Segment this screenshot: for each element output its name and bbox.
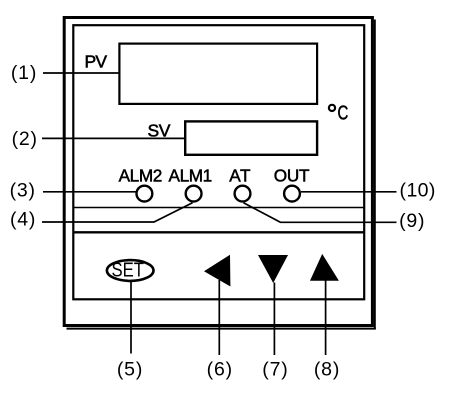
svg-text:ALM2: ALM2 [119,166,162,186]
up arrow button [310,254,339,281]
svg-text:(2): (2) [12,128,38,150]
leader line 3 [43,191,136,193]
unit °C [329,103,348,125]
svg-text:C: C [338,103,349,125]
svg-text:(9): (9) [399,210,425,232]
divider line lower [73,231,364,233]
inner panel frame [73,25,364,299]
SET button [107,260,154,282]
indicator lamp ALM1 [186,186,202,202]
svg-text:(4): (4) [10,208,36,230]
svg-text:OUT: OUT [274,166,310,186]
SV display box [185,121,317,154]
svg-text:(7): (7) [262,359,288,381]
svg-text:AT: AT [229,166,251,186]
leader line 4 [42,203,193,222]
down arrow button [258,255,288,283]
outer frame shadow [67,20,376,330]
svg-text:(3): (3) [10,179,36,201]
svg-text:ALM1: ALM1 [169,166,212,186]
svg-text:SET: SET [112,260,145,282]
leader line 1 [43,72,119,74]
left arrow button [204,255,230,287]
leader line 7 [273,283,275,356]
leader line 8 [325,281,327,356]
svg-text:(1): (1) [11,62,37,84]
divider line upper [73,207,364,209]
svg-text:(6): (6) [207,359,233,381]
leader line 2 [42,137,185,139]
indicator lamp OUT [284,186,300,202]
indicator lamp AT [235,186,251,202]
PV display box [119,44,317,104]
outer frame [64,18,372,326]
leader line 6 [218,280,220,355]
svg-text:(10): (10) [400,179,436,201]
leader line 10 [301,191,397,193]
svg-text:(8): (8) [314,359,340,381]
svg-text:(5): (5) [117,359,143,381]
leader line 5 [130,282,132,354]
leader line 9 [244,203,397,223]
indicator lamp ALM2 [137,186,153,202]
svg-text:SV: SV [148,121,171,141]
svg-text:PV: PV [85,52,108,72]
